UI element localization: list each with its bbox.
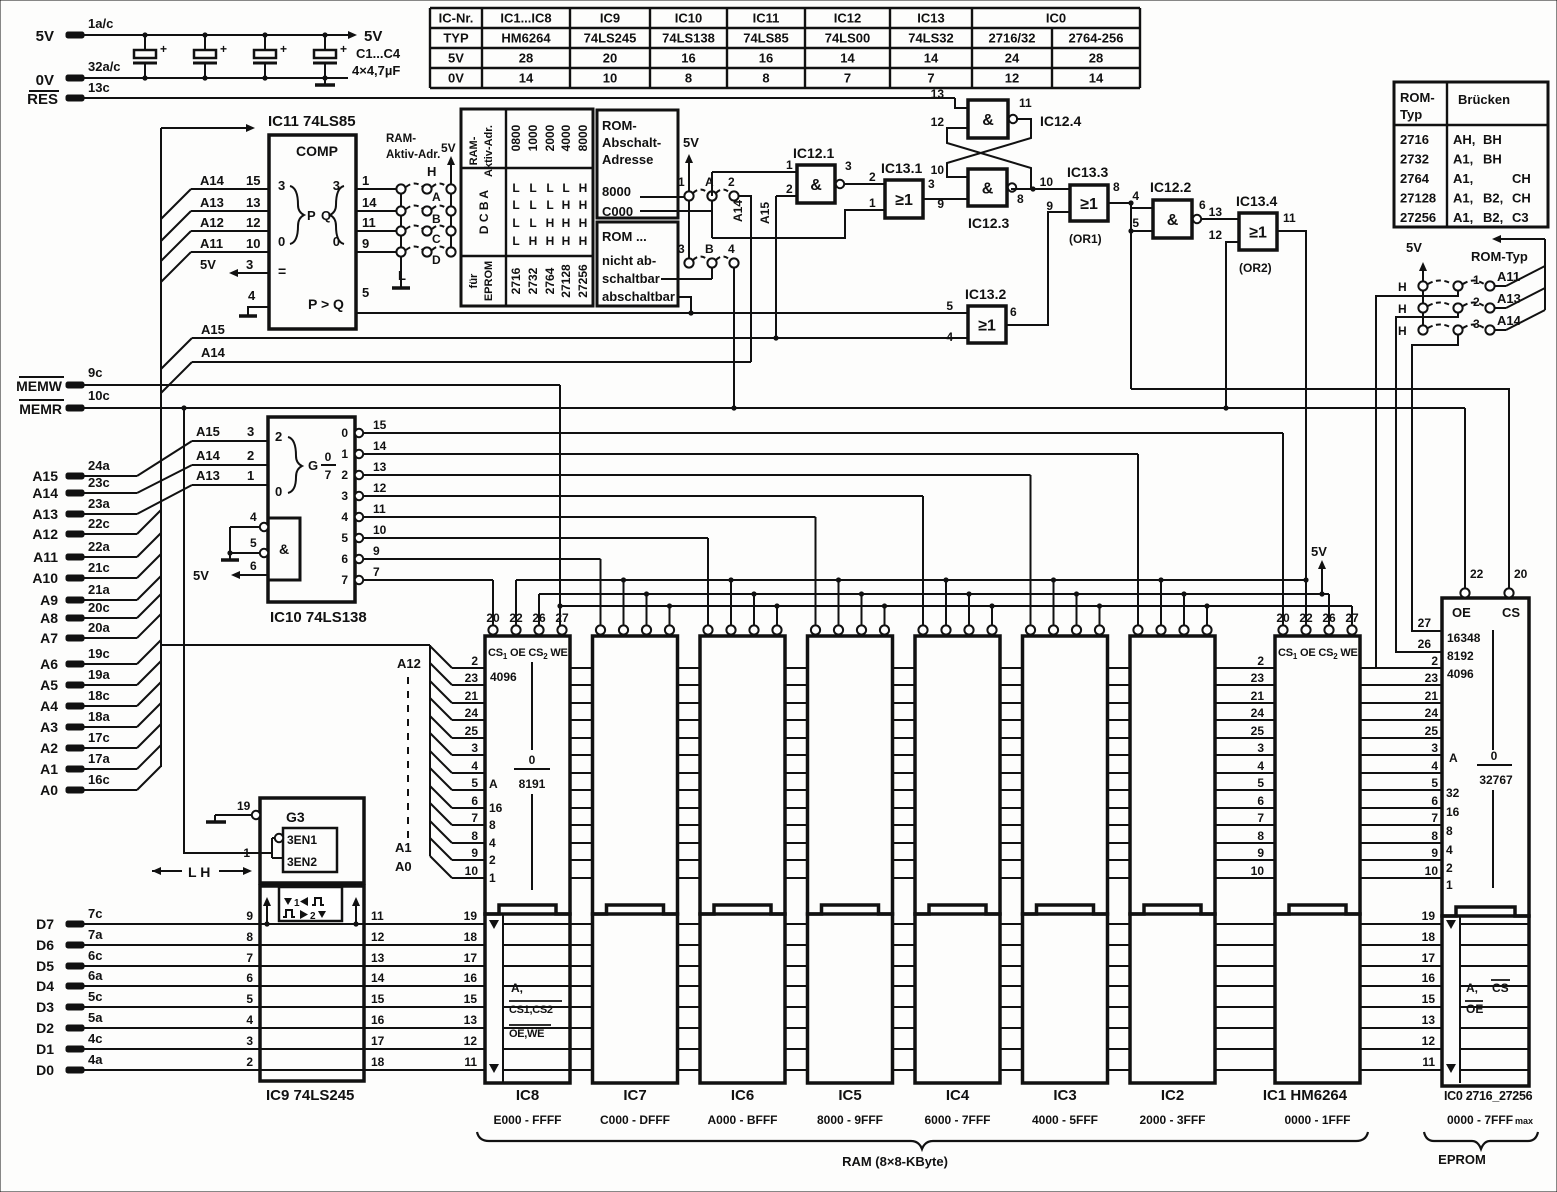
svg-text:H: H (427, 164, 436, 179)
svg-text:Q: Q (321, 208, 331, 223)
svg-text:6c: 6c (88, 948, 102, 963)
svg-text:8: 8 (1017, 192, 1024, 206)
svg-text:6: 6 (246, 971, 253, 985)
svg-text:A1,: A1, (1453, 210, 1473, 225)
svg-text:5V: 5V (193, 568, 209, 583)
svg-text:2764-256: 2764-256 (1069, 31, 1124, 46)
svg-text:14: 14 (840, 51, 855, 66)
svg-text:15: 15 (246, 173, 260, 188)
svg-text:max: max (1515, 1116, 1533, 1126)
svg-text:H: H (579, 216, 588, 230)
svg-text:A13: A13 (1497, 291, 1521, 306)
svg-text:18: 18 (1422, 930, 1436, 944)
svg-text:17: 17 (1422, 951, 1436, 965)
svg-text:4096: 4096 (1447, 667, 1474, 681)
svg-text:2: 2 (1257, 654, 1264, 668)
svg-text:12: 12 (1422, 1034, 1436, 1048)
svg-text:D6: D6 (36, 937, 54, 953)
svg-text:2732: 2732 (1400, 152, 1429, 167)
svg-text:A11: A11 (33, 549, 58, 565)
svg-text:ROM-: ROM- (602, 118, 637, 133)
svg-text:D1: D1 (36, 1041, 54, 1057)
svg-text:MEMR: MEMR (19, 401, 62, 417)
svg-text:24: 24 (1425, 706, 1439, 720)
svg-text:CS: CS (1502, 605, 1520, 620)
svg-text:IC4: IC4 (946, 1087, 970, 1104)
svg-text:1: 1 (786, 158, 793, 172)
svg-text:5: 5 (1257, 776, 1264, 790)
svg-text:17: 17 (464, 951, 478, 965)
svg-text:2732: 2732 (526, 267, 540, 294)
svg-text:0V: 0V (448, 71, 464, 86)
svg-text:20: 20 (486, 611, 500, 625)
svg-text:2: 2 (1473, 295, 1480, 309)
svg-text:23: 23 (1251, 671, 1265, 685)
svg-text:A15: A15 (201, 322, 225, 337)
svg-text:74LS85: 74LS85 (743, 31, 789, 46)
svg-text:L: L (562, 181, 569, 195)
svg-text:6: 6 (1010, 305, 1017, 319)
svg-text:5: 5 (246, 992, 253, 1006)
svg-text:23c: 23c (88, 475, 110, 490)
svg-text:23: 23 (1425, 671, 1439, 685)
svg-text:4: 4 (489, 836, 496, 850)
svg-text:A1,: A1, (1453, 171, 1473, 186)
svg-text:22a: 22a (88, 539, 110, 554)
svg-text:2: 2 (471, 654, 478, 668)
svg-text:8: 8 (685, 71, 692, 86)
svg-text:16: 16 (681, 51, 695, 66)
svg-text:G3: G3 (286, 809, 305, 825)
svg-text:6000 - 7FFF: 6000 - 7FFF (924, 1113, 990, 1127)
svg-text:=: = (278, 263, 286, 279)
svg-text:TYP: TYP (443, 31, 469, 46)
svg-text:4×4,7µF: 4×4,7µF (352, 63, 400, 78)
svg-text:IC13.4: IC13.4 (1236, 193, 1277, 209)
svg-text:Abschalt-: Abschalt- (602, 135, 661, 150)
svg-text:16: 16 (489, 801, 503, 815)
svg-text:6a: 6a (88, 968, 103, 983)
svg-text:A14: A14 (200, 173, 225, 188)
svg-text:IC11 74LS85: IC11 74LS85 (268, 113, 356, 130)
svg-text:13: 13 (246, 195, 260, 210)
svg-text:COMP: COMP (296, 143, 338, 159)
svg-text:Adresse: Adresse (602, 152, 653, 167)
svg-text:&: & (810, 177, 822, 194)
svg-text:EPROM: EPROM (1438, 1152, 1486, 1167)
svg-text:24: 24 (1005, 51, 1020, 66)
svg-text:A1,: A1, (1453, 152, 1473, 167)
svg-text:IC13.3: IC13.3 (1067, 164, 1108, 180)
svg-text:IC3: IC3 (1053, 1087, 1076, 1104)
svg-text:nicht ab-: nicht ab- (602, 253, 656, 268)
svg-text:3: 3 (246, 1034, 253, 1048)
svg-text:11: 11 (1019, 96, 1032, 110)
svg-text:25: 25 (465, 724, 479, 738)
svg-text:A,: A, (1466, 981, 1478, 995)
svg-text:IC6: IC6 (731, 1087, 754, 1104)
svg-text:11: 11 (371, 909, 384, 923)
svg-text:BH: BH (1483, 132, 1502, 147)
svg-text:5V: 5V (683, 135, 699, 150)
svg-text:9: 9 (373, 544, 380, 558)
svg-text:IC0: IC0 (1046, 11, 1066, 26)
svg-text:IC13.1: IC13.1 (881, 160, 922, 176)
svg-text:4: 4 (250, 510, 257, 524)
svg-text:IC8: IC8 (516, 1087, 539, 1104)
svg-text:32767: 32767 (1479, 773, 1513, 787)
svg-text:RAM (8×8-KByte): RAM (8×8-KByte) (842, 1154, 948, 1169)
svg-text:für: für (468, 273, 480, 288)
svg-text:0: 0 (341, 426, 348, 440)
svg-text:5V: 5V (448, 51, 464, 66)
svg-text:schaltbar: schaltbar (602, 271, 660, 286)
svg-text:14: 14 (519, 71, 534, 86)
svg-text:7: 7 (246, 951, 253, 965)
svg-text:IC13.2: IC13.2 (965, 286, 1006, 302)
svg-text:1: 1 (489, 871, 496, 885)
svg-text:P > Q: P > Q (308, 296, 344, 312)
svg-text:3: 3 (278, 178, 285, 193)
svg-text:AH,: AH, (1453, 132, 1475, 147)
svg-text:21: 21 (1251, 689, 1265, 703)
svg-text:IC7: IC7 (623, 1087, 646, 1104)
svg-text:11: 11 (373, 502, 386, 516)
svg-text:D3: D3 (36, 999, 54, 1015)
svg-text:5: 5 (1132, 216, 1139, 230)
svg-text:C000: C000 (602, 204, 633, 219)
svg-text:19: 19 (237, 799, 251, 813)
svg-text:E000 - FFFF: E000 - FFFF (493, 1113, 561, 1127)
svg-text:8: 8 (1113, 180, 1120, 194)
svg-text:L: L (529, 198, 536, 212)
svg-text:8000 - 9FFF: 8000 - 9FFF (817, 1113, 883, 1127)
svg-text:ROM-Typ: ROM-Typ (1471, 249, 1528, 264)
svg-text:32a/c: 32a/c (88, 59, 121, 74)
svg-text:B: B (432, 212, 441, 226)
svg-text:A13: A13 (200, 195, 224, 210)
svg-text:CS1,CS2: CS1,CS2 (509, 1004, 553, 1016)
svg-text:10c: 10c (88, 388, 110, 403)
svg-text:A0: A0 (40, 782, 58, 798)
svg-text:8000: 8000 (576, 124, 590, 151)
svg-text:5: 5 (946, 299, 953, 313)
svg-text:A14: A14 (32, 485, 58, 501)
svg-text:L: L (398, 268, 406, 283)
svg-text:Typ: Typ (1400, 107, 1422, 122)
svg-text:&: & (1167, 212, 1179, 229)
svg-text:5V: 5V (441, 141, 456, 155)
svg-text:8: 8 (246, 930, 253, 944)
svg-text:24: 24 (465, 706, 479, 720)
svg-text:2000: 2000 (543, 124, 557, 151)
svg-text:8192: 8192 (1447, 649, 1474, 663)
svg-text:13: 13 (373, 460, 387, 474)
svg-text:IC12.3: IC12.3 (968, 215, 1009, 231)
svg-text:19: 19 (1422, 909, 1436, 923)
svg-text:2: 2 (310, 911, 316, 922)
svg-text:4: 4 (1132, 189, 1139, 203)
svg-text:22: 22 (1299, 611, 1313, 625)
svg-text:≥1: ≥1 (978, 318, 996, 335)
svg-text:1000: 1000 (526, 124, 540, 151)
svg-text:27128: 27128 (1400, 191, 1436, 206)
svg-text:ROM-: ROM- (1400, 90, 1435, 105)
svg-text:5V: 5V (364, 28, 382, 45)
svg-text:IC12.2: IC12.2 (1150, 179, 1191, 195)
svg-text:13: 13 (1422, 1013, 1436, 1027)
svg-text:16: 16 (1446, 805, 1460, 819)
svg-text:6: 6 (1431, 794, 1438, 808)
svg-text:2: 2 (1431, 654, 1438, 668)
svg-text:H: H (546, 234, 555, 248)
svg-text:8: 8 (471, 829, 478, 843)
svg-text:IC5: IC5 (838, 1087, 861, 1104)
svg-text:H: H (529, 234, 538, 248)
svg-text:12: 12 (464, 1034, 478, 1048)
svg-text:14: 14 (1089, 71, 1104, 86)
svg-text:8191: 8191 (519, 777, 546, 791)
svg-text:C000 - DFFF: C000 - DFFF (600, 1113, 670, 1127)
svg-text:IC0 2716_27256: IC0 2716_27256 (1444, 1089, 1533, 1103)
svg-text:&: & (982, 181, 994, 198)
svg-text:A5: A5 (40, 677, 58, 693)
svg-text:13: 13 (464, 1013, 478, 1027)
svg-text:16: 16 (1422, 971, 1436, 985)
svg-text:0: 0 (1491, 749, 1498, 763)
svg-text:11: 11 (464, 1055, 477, 1069)
svg-text:A: A (432, 190, 441, 204)
svg-text:74LS245: 74LS245 (584, 31, 637, 46)
svg-text:10: 10 (1040, 175, 1054, 189)
svg-text:2: 2 (1446, 861, 1453, 875)
svg-text:H: H (579, 234, 588, 248)
svg-text:A11: A11 (1497, 269, 1520, 284)
svg-text:9: 9 (362, 236, 369, 251)
svg-text:0800: 0800 (509, 124, 523, 151)
svg-text:1: 1 (1473, 273, 1480, 287)
svg-text:RAM-: RAM- (386, 133, 416, 145)
svg-text:74LS138: 74LS138 (662, 31, 715, 46)
svg-text:8: 8 (1257, 829, 1264, 843)
svg-text:10: 10 (1425, 864, 1439, 878)
svg-text:10: 10 (465, 864, 479, 878)
svg-text:1: 1 (678, 175, 685, 189)
svg-text:5V: 5V (1311, 544, 1327, 559)
svg-text:2764: 2764 (543, 267, 557, 294)
svg-text:17c: 17c (88, 730, 110, 745)
svg-text:L: L (529, 216, 536, 230)
svg-text:1: 1 (294, 898, 300, 909)
svg-text:3: 3 (1431, 741, 1438, 755)
svg-text:1a/c: 1a/c (88, 16, 113, 31)
svg-text:A11: A11 (200, 236, 223, 251)
svg-text:RES: RES (27, 91, 58, 108)
svg-text:A14: A14 (1497, 313, 1522, 328)
svg-text:3: 3 (928, 177, 935, 191)
svg-text:A6: A6 (40, 656, 58, 672)
svg-text:+: + (340, 42, 347, 56)
svg-text:9: 9 (246, 909, 253, 923)
svg-text:D4: D4 (36, 978, 54, 994)
svg-text:20a: 20a (88, 620, 110, 635)
svg-text:27256: 27256 (1400, 210, 1436, 225)
svg-text:20: 20 (1276, 611, 1290, 625)
svg-text:L: L (529, 181, 536, 195)
svg-text:C1...C4: C1...C4 (356, 46, 401, 61)
svg-text:10: 10 (1251, 864, 1265, 878)
svg-text:L: L (512, 216, 519, 230)
svg-text:A000 - BFFF: A000 - BFFF (707, 1113, 777, 1127)
svg-text:5: 5 (341, 531, 348, 545)
svg-text:0: 0 (278, 234, 285, 249)
svg-text:IC-Nr.: IC-Nr. (439, 11, 474, 26)
svg-text:2000 - 3FFF: 2000 - 3FFF (1139, 1113, 1205, 1127)
svg-text:+: + (280, 42, 287, 56)
svg-text:A1,: A1, (1453, 191, 1473, 206)
svg-text:2: 2 (728, 175, 735, 189)
svg-text:5: 5 (1431, 776, 1438, 790)
svg-text:5a: 5a (88, 1010, 103, 1025)
svg-text:26: 26 (1418, 637, 1432, 651)
svg-text:74LS32: 74LS32 (908, 31, 954, 46)
svg-text:D: D (432, 253, 441, 267)
svg-text:A3: A3 (40, 719, 58, 735)
svg-text:MEMW: MEMW (16, 378, 63, 394)
svg-text:D2: D2 (36, 1020, 54, 1036)
svg-text:4: 4 (728, 242, 735, 256)
svg-text:L: L (512, 181, 519, 195)
svg-text:8: 8 (489, 818, 496, 832)
svg-text:3EN2: 3EN2 (287, 855, 317, 869)
svg-text:B: B (705, 242, 714, 256)
svg-text:0V: 0V (36, 72, 54, 89)
svg-text:4000: 4000 (559, 124, 573, 151)
svg-text:7: 7 (373, 565, 380, 579)
svg-text:7a: 7a (88, 927, 103, 942)
svg-text:10: 10 (246, 236, 260, 251)
svg-text:2: 2 (247, 448, 254, 463)
svg-text:19a: 19a (88, 667, 110, 682)
svg-text:5V: 5V (36, 28, 54, 45)
svg-text:CH: CH (1512, 171, 1531, 186)
svg-text:0000 - 7FFF: 0000 - 7FFF (1447, 1113, 1513, 1127)
svg-text:A4: A4 (40, 698, 58, 714)
svg-text:0000 - 1FFF: 0000 - 1FFF (1284, 1113, 1350, 1127)
svg-text:C: C (432, 232, 441, 246)
svg-text:12: 12 (246, 215, 260, 230)
svg-text:25: 25 (1251, 724, 1265, 738)
svg-text:21: 21 (1425, 689, 1439, 703)
svg-text:11: 11 (1283, 211, 1296, 225)
svg-text:4096: 4096 (490, 670, 517, 684)
svg-text:8000: 8000 (602, 184, 631, 199)
svg-text:12: 12 (1005, 71, 1019, 86)
svg-text:27128: 27128 (559, 264, 573, 298)
svg-text:L: L (512, 234, 519, 248)
svg-text:6: 6 (1199, 198, 1206, 212)
svg-text:IC2: IC2 (1161, 1087, 1184, 1104)
svg-text:22: 22 (1470, 567, 1484, 581)
svg-text:18: 18 (371, 1055, 385, 1069)
svg-text:4a: 4a (88, 1052, 103, 1067)
svg-text:H: H (562, 234, 571, 248)
svg-text:8: 8 (762, 71, 769, 86)
svg-text:Brücken: Brücken (1458, 92, 1510, 107)
svg-text:9: 9 (1046, 199, 1053, 213)
svg-text:14: 14 (373, 439, 387, 453)
svg-text:19c: 19c (88, 646, 110, 661)
svg-text:OE,WE: OE,WE (509, 1028, 544, 1040)
svg-text:IC12.4: IC12.4 (1040, 113, 1081, 129)
svg-text:ROM ...: ROM ... (602, 229, 647, 244)
svg-text:7: 7 (1257, 811, 1264, 825)
svg-text:5: 5 (362, 285, 369, 300)
svg-text:28: 28 (1089, 51, 1103, 66)
svg-text:OE: OE (1466, 1002, 1483, 1016)
svg-text:4: 4 (1257, 759, 1264, 773)
svg-text:27: 27 (1418, 616, 1432, 630)
svg-text:BH: BH (1483, 152, 1502, 167)
svg-text:IC12: IC12 (834, 11, 861, 26)
svg-text:22c: 22c (88, 516, 110, 531)
svg-text:A13: A13 (196, 468, 220, 483)
svg-text:C3: C3 (1512, 210, 1529, 225)
svg-text:5V: 5V (1406, 240, 1422, 255)
svg-text:H: H (546, 216, 555, 230)
svg-text:12: 12 (931, 115, 945, 129)
svg-text:1: 1 (247, 468, 254, 483)
svg-text:14: 14 (362, 195, 377, 210)
svg-text:H: H (562, 216, 571, 230)
svg-text:12: 12 (371, 930, 385, 944)
svg-text:A1: A1 (395, 840, 412, 855)
svg-text:7: 7 (927, 71, 934, 86)
svg-text:4: 4 (248, 288, 256, 303)
svg-text:14: 14 (924, 51, 939, 66)
svg-text:13: 13 (371, 951, 385, 965)
svg-text:74LS00: 74LS00 (825, 31, 871, 46)
svg-text:2764: 2764 (1400, 171, 1430, 186)
svg-text:16: 16 (759, 51, 773, 66)
svg-text:14: 14 (371, 971, 385, 985)
svg-text:4: 4 (246, 1013, 253, 1027)
svg-text:A2: A2 (40, 740, 58, 756)
svg-text:+: + (220, 42, 227, 56)
svg-text:23a: 23a (88, 496, 110, 511)
svg-text:27256: 27256 (576, 264, 590, 298)
svg-text:G: G (308, 458, 318, 473)
svg-text:A7: A7 (40, 630, 58, 646)
svg-text:H: H (1398, 280, 1407, 294)
svg-text:≥1: ≥1 (1249, 225, 1267, 242)
svg-text:L: L (546, 181, 553, 195)
svg-text:H: H (562, 198, 571, 212)
svg-text:D7: D7 (36, 916, 54, 932)
svg-text:L: L (546, 198, 553, 212)
svg-text:20: 20 (603, 51, 617, 66)
svg-text:2: 2 (246, 1055, 253, 1069)
svg-text:11: 11 (362, 215, 376, 230)
svg-text:A12: A12 (200, 215, 224, 230)
svg-text:CH: CH (1512, 191, 1531, 206)
svg-text:13: 13 (1209, 205, 1223, 219)
svg-text:8: 8 (1431, 829, 1438, 843)
svg-text:D5: D5 (36, 958, 54, 974)
svg-text:OE: OE (1452, 605, 1471, 620)
svg-text:IC10 74LS138: IC10 74LS138 (270, 609, 367, 626)
svg-text:Aktiv-Adr.: Aktiv-Adr. (386, 149, 440, 161)
